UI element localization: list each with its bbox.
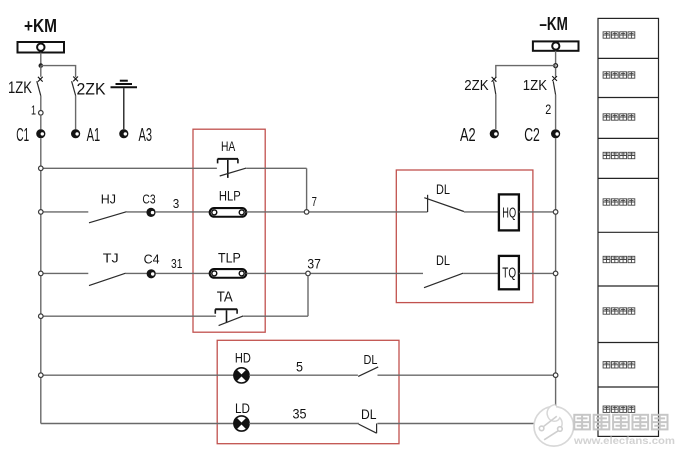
lamp LD [234,416,249,431]
node 37 [306,271,311,276]
svg-text:TJ: TJ [103,251,119,266]
terminal C4 [147,269,156,278]
svg-text:LD: LD [235,400,250,416]
svg-text:1ZK: 1ZK [523,77,547,94]
contact DL normally-closed (closing circuit) [424,195,464,212]
wire DL to right bus LD [377,423,555,425]
annotation table frame [598,18,659,436]
node HQ bus [553,210,558,215]
wire right bus C2 down [555,138,557,423]
svg-text:C1: C1 [16,125,29,145]
svg-text:A2: A2 [460,125,476,145]
wire junction to 1ZK right [555,68,557,77]
node 7 [304,210,309,215]
contact DL normally-open (tripping circuit) [424,273,463,288]
table row label kongzhidianyuan [603,114,635,120]
wire junction to 1ZK [40,66,42,77]
terminal C1 [36,129,45,138]
coil TQ [499,256,519,289]
red frame breaker coils group [396,170,533,303]
terminal C3 [146,208,155,217]
wire C4 to TLP [156,272,210,274]
node TQ bus [553,271,558,276]
wire fuse -KM to junction [555,51,557,64]
table row label baohuhezha [603,199,635,205]
pushbutton HA [218,159,247,178]
svg-text:7: 7 [312,194,317,209]
wire TJ to C4 [126,272,148,274]
table row label shoudonghezha [603,152,635,158]
terminal C2 [551,129,560,138]
link HLP [210,208,247,217]
wire HD lamp to DL [249,374,358,376]
svg-text:HJ: HJ [101,192,116,207]
node left bus TA row [39,314,44,319]
wire fuse +KM to junction [40,53,42,64]
svg-text:3: 3 [173,196,180,211]
svg-text:1: 1 [31,103,36,118]
svg-text:HQ: HQ [502,204,516,221]
svg-text:DL: DL [364,352,378,367]
svg-text:TA: TA [217,289,233,306]
svg-text:31: 31 [171,256,182,271]
lamp HD [234,368,249,383]
watermark logo [534,405,574,447]
terminal A1 [71,129,80,138]
table row label kongzhimuxian [603,32,635,38]
wire TA row left [41,315,216,317]
wire TJ row left [41,272,89,274]
switch 2ZK right [492,77,497,129]
wire TQ to right bus [519,272,556,274]
svg-text:C3: C3 [142,191,155,206]
svg-text:A3: A3 [139,125,153,145]
contact DL normally-open (closing indication) [358,367,378,377]
node left bus HD row [39,373,44,378]
svg-text:TLP: TLP [218,250,241,266]
svg-text:DL: DL [436,252,450,268]
wire A3 [123,88,125,129]
svg-text:C4: C4 [144,252,160,267]
node 1 [39,111,44,116]
svg-text:2: 2 [545,101,551,117]
contact DL normally-closed (tripping indication) [359,424,377,434]
table row label kongqikaiguan [603,72,635,78]
wire TA rise to node 37 [307,276,309,317]
wire HJ to C3 [127,211,147,213]
wire left bus C1 down [40,138,42,423]
wire node 1 to terminal C1 [40,115,42,129]
svg-text:2ZK: 2ZK [464,77,488,94]
switch 1ZK left [37,77,43,111]
wire HLP to DL closing [246,211,427,213]
svg-text:5: 5 [296,358,303,374]
wire C3 to HLP [155,211,210,213]
fuse -KM [533,41,579,50]
switch 2ZK left [72,77,78,130]
table row label hezhazhishi [603,362,635,368]
link TLP [210,269,247,278]
svg-text:C2: C2 [524,125,540,145]
svg-text:TQ: TQ [502,264,516,281]
node left bus HA row [39,166,44,171]
contact TJ [89,273,126,285]
table row label shoudongtiaozha [603,308,635,314]
wire branch junction to 2ZK right [496,66,556,78]
svg-text:37: 37 [307,256,321,272]
watermark brand glyphs [574,415,667,430]
wire LD row left [41,423,234,425]
svg-text:35: 35 [293,406,307,422]
wire TA row right [243,315,308,317]
svg-text:DL: DL [436,181,450,197]
wire TLP to DL tripping [246,272,423,274]
junction node right [554,64,558,68]
table row label fenzhazhishi [603,406,635,412]
terminal A2 [490,129,499,138]
wire LD lamp to DL [249,423,359,425]
wire DL to coil HQ [464,211,499,213]
contact HJ [89,212,127,223]
node left bus TJ row [39,271,44,276]
wire HD row left [41,374,234,376]
fuse +KM [18,42,65,53]
svg-text:www.elecfans.com: www.elecfans.com [573,435,675,447]
wire HQ to right bus [519,211,556,213]
wire HJ row left [41,211,89,213]
svg-text:1ZK: 1ZK [8,79,32,97]
wire HA row left [41,167,217,169]
node left bus HJ row [39,210,44,215]
coil HQ [499,194,519,230]
wire DL to coil TQ [463,272,499,274]
terminal A3 [119,129,128,138]
wire branch junction to 2ZK [41,66,76,78]
svg-text:2ZK: 2ZK [77,81,106,99]
ground stack above A3 [111,81,138,88]
wire DL to right bus HD [378,374,556,376]
svg-text:HLP: HLP [219,188,241,204]
table row label baohutiaozha [603,256,635,262]
red frame indication group [217,340,399,443]
svg-text:+KM: +KM [24,16,57,36]
wire HA row right [246,167,306,169]
svg-text:HD: HD [235,350,251,366]
svg-text:DL: DL [361,406,377,422]
svg-text:A1: A1 [87,125,101,145]
switch 1ZK right [552,76,557,129]
wire HA drop to node 7 [306,168,308,210]
red frame pushbutton/link group [193,129,265,332]
pushbutton TA [215,309,243,325]
svg-text:–KM: –KM [539,14,568,34]
svg-text:HA: HA [221,138,236,154]
junction dot [39,63,44,68]
node HD bus right [553,373,558,378]
